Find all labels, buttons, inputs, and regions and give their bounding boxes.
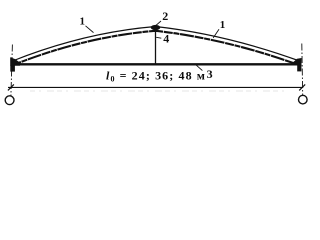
svg-text:1: 1 (220, 19, 226, 31)
wire: upper curved chord (arch), element 1 (13, 27, 302, 62)
svg-text:1: 1 (79, 16, 85, 28)
right axis bubble circle (299, 95, 308, 104)
wire: vertical hanger, element 4 (155, 28, 157, 65)
wire: tie rod, element 3 (13, 63, 301, 65)
left coordination axis line (11, 45, 13, 97)
right anchor block below tie (297, 65, 301, 72)
node: left support joint (10, 57, 20, 65)
svg-text:4: 4 (163, 31, 169, 45)
left dimension serif tick (8, 84, 14, 90)
left axis bubble circle (5, 96, 14, 105)
leader for label 3 (195, 64, 202, 70)
right coordination axis line (301, 44, 304, 96)
node: right support joint (292, 58, 302, 65)
leader for label 1 right (213, 29, 219, 38)
svg-text:2: 2 (162, 9, 168, 23)
svg-text:l0 = 24; 36; 48 м: l0 = 24; 36; 48 м (106, 69, 206, 84)
left anchor block below tie (10, 65, 15, 71)
svg-text:3: 3 (207, 67, 213, 81)
right dimension serif tick (299, 84, 305, 90)
leader tick for label 4 (156, 36, 161, 39)
faint scan noise strip (30, 90, 290, 92)
dimension line for span (8, 86, 303, 88)
leader for label 1 left (86, 26, 94, 33)
wire: lower straight chord band (rafter), element 1 lower line (13, 31, 302, 66)
leader for label 2 (154, 21, 161, 27)
node: ridge joint 2 (151, 25, 161, 30)
